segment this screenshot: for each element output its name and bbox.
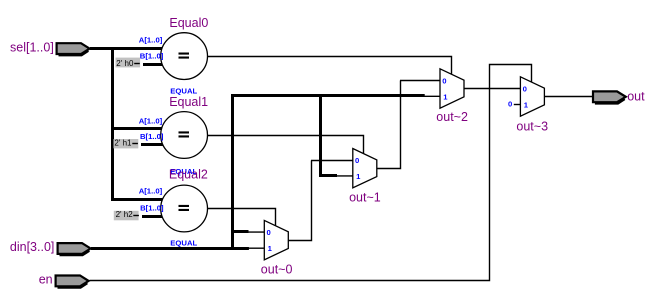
wire constant 0 to out~3 input 1 bbox=[514, 104, 521, 106]
svg-text:2' h0: 2' h0 bbox=[116, 59, 134, 68]
svg-text:out: out bbox=[627, 89, 645, 103]
svg-text:out~0: out~0 bbox=[261, 263, 293, 277]
wire din bus horizontal to out~0 input 1 bbox=[91, 247, 249, 250]
wire din bus top horizontal to out~2 input 1 bbox=[231, 94, 425, 97]
svg-text:EQUAL: EQUAL bbox=[170, 238, 197, 247]
svg-text:2' h1: 2' h1 bbox=[114, 139, 132, 148]
wire sel bus horizontal to Equal0 A bbox=[90, 47, 162, 50]
svg-text:0: 0 bbox=[508, 100, 512, 109]
output pin out bbox=[593, 91, 626, 102]
wire en to out~3 select bbox=[90, 65, 532, 281]
svg-text:0: 0 bbox=[523, 84, 527, 93]
wire sel bus vertical branch bbox=[111, 47, 114, 201]
svg-text:B[1..0]: B[1..0] bbox=[140, 204, 164, 213]
svg-text:A[1..0]: A[1..0] bbox=[139, 117, 163, 126]
svg-text:Equal2: Equal2 bbox=[169, 168, 208, 182]
comparator Equal0 bbox=[161, 33, 208, 80]
mux out~1 bbox=[353, 149, 377, 188]
constant 2'h1 bbox=[114, 139, 139, 148]
wire constant 2'h1 to Equal1 B bbox=[141, 143, 163, 146]
input pin din[3..0] bbox=[58, 243, 91, 254]
svg-text:1: 1 bbox=[268, 244, 273, 253]
svg-text:en: en bbox=[39, 273, 53, 287]
wire constant 2'h2 to Equal2 B bbox=[142, 215, 163, 218]
svg-text:sel[1..0]: sel[1..0] bbox=[10, 41, 54, 55]
input pin sel[1..0] bbox=[57, 43, 90, 54]
wire out~1 output to out~2 input 0 bbox=[377, 81, 401, 169]
svg-text:Equal1: Equal1 bbox=[169, 95, 208, 109]
wire out~2 output to out~3 input 0 bbox=[464, 88, 520, 90]
svg-text:B[1..0]: B[1..0] bbox=[140, 132, 164, 141]
svg-text:1: 1 bbox=[443, 92, 448, 101]
mux out~2 bbox=[440, 69, 464, 108]
wire din bus vertical riser bbox=[231, 94, 234, 250]
svg-text:din[3..0]: din[3..0] bbox=[10, 240, 54, 254]
svg-text:0: 0 bbox=[355, 156, 359, 165]
svg-text:Equal0: Equal0 bbox=[169, 16, 208, 30]
svg-text:out~3: out~3 bbox=[516, 119, 548, 133]
constant 2'h2 bbox=[114, 211, 139, 221]
wire Equal1 EQUAL output to out~1 select bbox=[207, 136, 364, 155]
wire constant 2'h0 to Equal0 B bbox=[143, 63, 163, 66]
svg-text:B[1..0]: B[1..0] bbox=[140, 52, 164, 61]
svg-text:0: 0 bbox=[442, 76, 446, 85]
svg-text:1: 1 bbox=[524, 100, 529, 109]
svg-text:0: 0 bbox=[267, 228, 271, 237]
svg-text:1: 1 bbox=[356, 172, 361, 181]
comparator Equal1 bbox=[161, 112, 208, 159]
wire Equal0 EQUAL output to out~2 select bbox=[207, 57, 452, 76]
svg-text:A[1..0]: A[1..0] bbox=[139, 36, 163, 45]
constant 2'h0 bbox=[116, 58, 141, 68]
mux out~0 bbox=[264, 220, 288, 259]
wire sel branch to Equal1 A bbox=[111, 127, 163, 130]
svg-text:2' h2: 2' h2 bbox=[116, 210, 134, 219]
wire Equal2 EQUAL output to out~0 select bbox=[207, 209, 276, 227]
input pin en bbox=[56, 276, 89, 287]
wire out~0 output to out~1 input 0 bbox=[288, 161, 311, 241]
svg-text:A[1..0]: A[1..0] bbox=[139, 187, 163, 196]
wire out~3 output to out pin bbox=[544, 96, 593, 98]
comparator Equal2 bbox=[161, 185, 208, 232]
wire sel branch to Equal2 A bbox=[111, 198, 163, 201]
wire din branch to out~1 input 1 bbox=[319, 94, 322, 176]
svg-text:out~1: out~1 bbox=[349, 191, 381, 205]
svg-text:out~2: out~2 bbox=[436, 110, 468, 124]
wire din branch to out~0 input 0 bbox=[231, 230, 249, 233]
mux out~3 bbox=[520, 77, 544, 116]
